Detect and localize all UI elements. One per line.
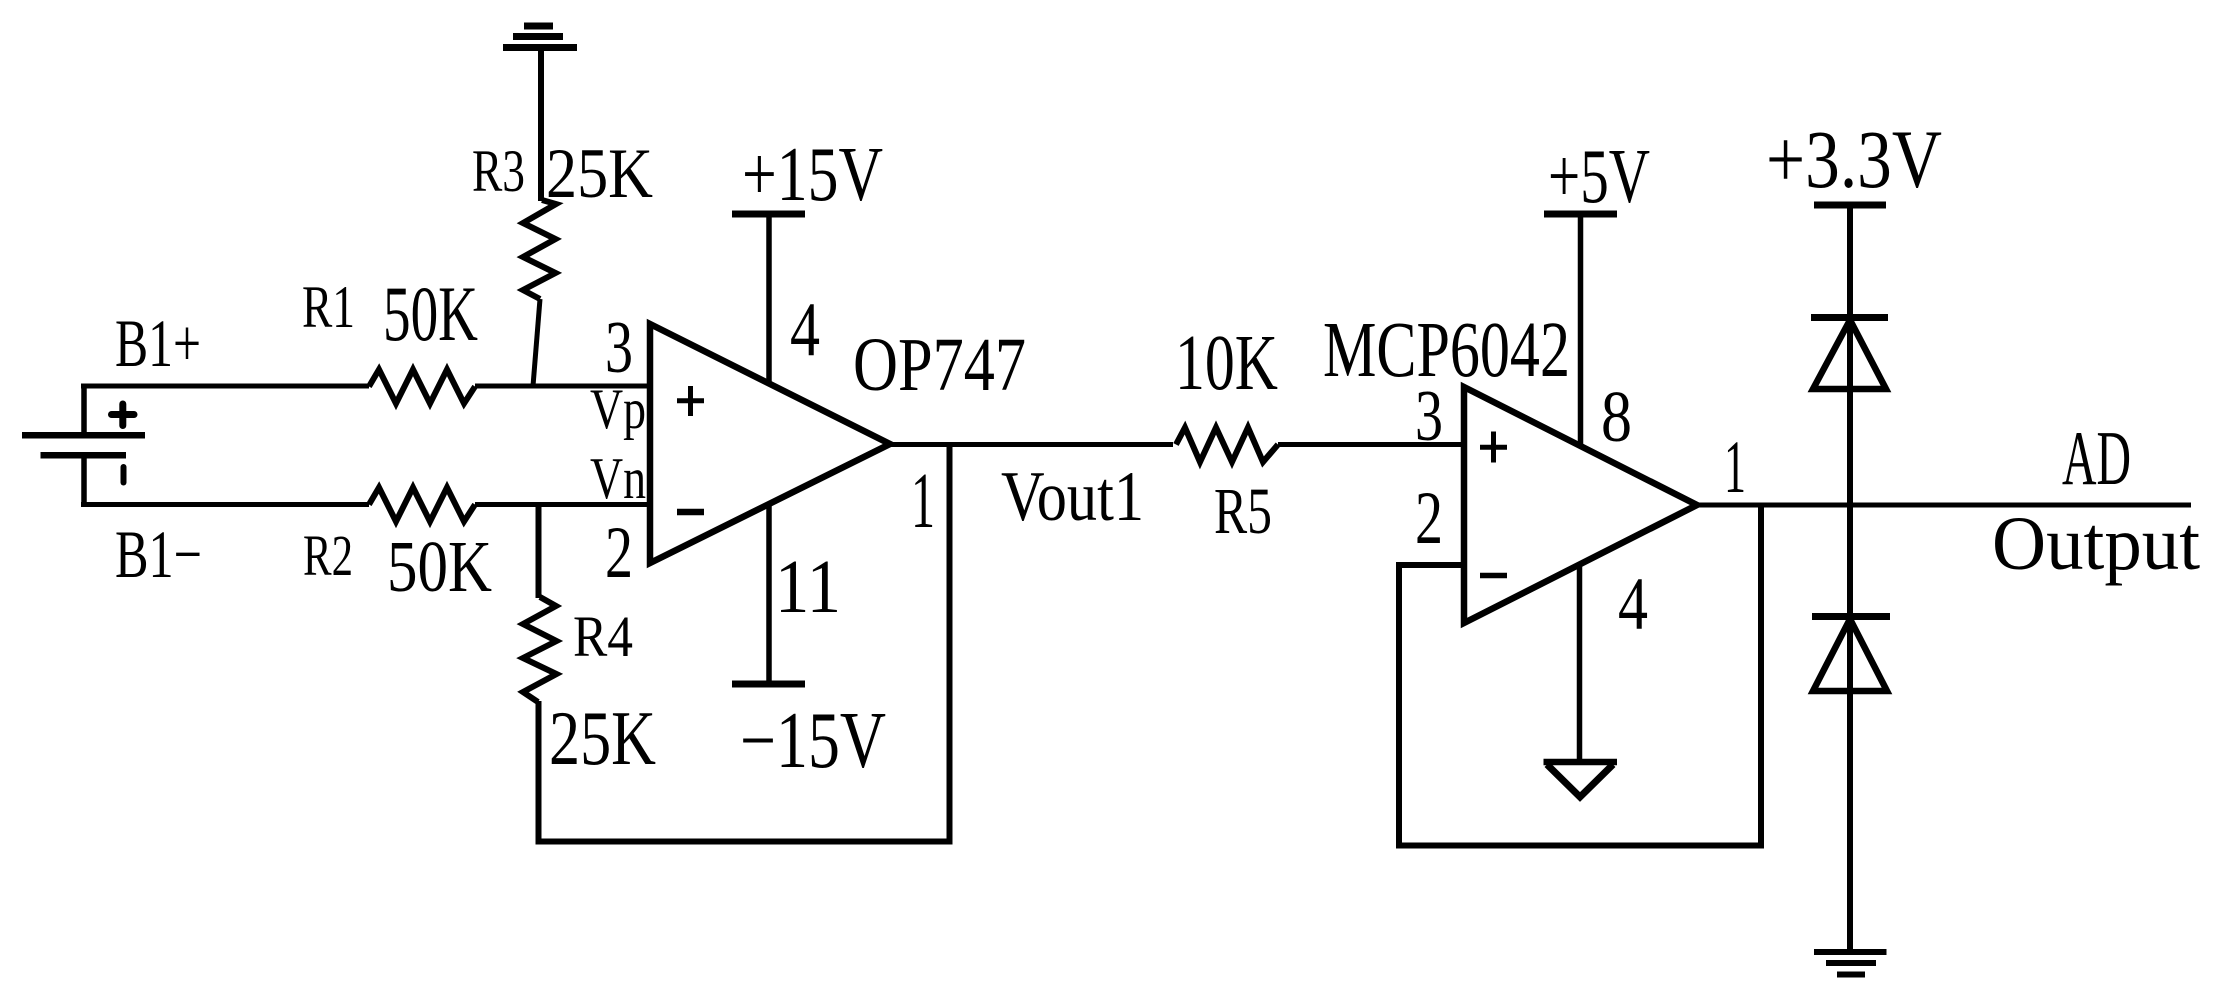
svg-text:+15V: +15V [742,131,883,217]
resistor R3 [523,200,556,299]
wire (op1 output to R5) [888,442,1173,447]
wire (R2 to op-amp pin 2) [475,502,650,507]
svg-text:R4: R4 [573,604,633,669]
resistor R5 [1176,428,1278,463]
battery B1 plus mark [112,404,135,426]
power +15V bar [732,211,805,218]
svg-text:Vn: Vn [590,445,646,511]
wire (op2 output to AD Output) [1695,503,2191,508]
svg-text:Vout1: Vout1 [1001,458,1144,536]
svg-text:R2: R2 [303,523,353,588]
svg-text:8: 8 [1601,376,1632,457]
power +3.3V bar [1814,202,1886,209]
wire (B1 bottom lead) [81,457,87,505]
resistor R4 [523,597,557,702]
battery B1 [22,386,145,505]
svg-text:B1−: B1− [115,516,202,592]
svg-text:3: 3 [605,307,633,389]
svg-text:2: 2 [1415,477,1443,560]
svg-text:50K: 50K [383,270,478,357]
svg-text:25K: 25K [546,135,653,213]
op-amp U1 minus input mark [677,509,704,516]
wire (R1 to op-amp pin 3) [475,384,650,389]
op-amp U2 minus input mark [1480,573,1507,579]
wire (R4 to feedback bottom) [536,701,542,842]
wire (+15V supply lead, pin 4) [766,214,772,383]
wire (R4 branch from pin2 node) [536,505,542,599]
svg-text:1: 1 [911,458,935,545]
power -15V bar [732,681,805,688]
wire (B1- to R2) [81,502,369,507]
op-amp U1 plus input mark [677,386,704,416]
wire (-15V supply lead, pin 11) [766,504,772,684]
resistor R1 [369,370,475,404]
ground (top, above R3) [503,26,577,48]
wire (ground to R3) [538,50,544,201]
svg-text:10K: 10K [1175,320,1278,407]
svg-text:AD: AD [2062,415,2131,501]
svg-text:4: 4 [1618,563,1648,646]
svg-text:−15V: −15V [740,697,886,785]
wire (feedback U1: output down then left to R4) [536,445,950,842]
battery B1 positive plate [22,432,145,439]
svg-text:2: 2 [605,512,633,594]
battery B1 minus mark [121,464,127,486]
op-amp U2 MCP6042 triangle [1464,387,1697,623]
resistor R2 [369,488,475,522]
diode D2 [1813,619,1887,691]
battery B1 negative plate [41,452,127,459]
wire (B1 top lead) [81,386,87,432]
wire (B1+ to R1) [81,384,369,389]
wire (R5 to op-amp U2 pin 3) [1278,442,1464,447]
svg-text:+5V: +5V [1548,133,1650,219]
wire (diode clamp vertical rail) [1847,205,1853,951]
svg-text:25K: 25K [549,695,656,781]
svg-text:R1: R1 [302,274,355,340]
power +5V bar [1544,211,1617,218]
svg-text:50K: 50K [387,526,492,607]
svg-text:11: 11 [775,545,841,629]
svg-text:+3.3V: +3.3V [1766,113,1942,205]
op-amp U2 plus input mark [1480,432,1507,463]
svg-text:MCP6042: MCP6042 [1323,307,1570,394]
wire (+5V supply lead, pin 8) [1578,214,1584,444]
svg-text:4: 4 [790,286,820,372]
wire (pin 4 to ground arrow) [1577,565,1583,761]
svg-text:R3: R3 [472,138,525,204]
svg-text:B1+: B1+ [115,305,201,381]
svg-text:3: 3 [1415,375,1443,456]
wire (R3 slant to node Vp) [533,299,540,386]
ground (bottom right) [1814,952,1887,975]
svg-text:Output: Output [1992,502,2200,586]
svg-text:OP747: OP747 [853,323,1026,407]
svg-text:R5: R5 [1214,475,1272,548]
diode D1 cathode bar [1811,314,1888,321]
diode D2 cathode bar [1812,613,1890,620]
diode D1 [1813,320,1886,389]
op-amp U1 OP747 triangle [650,324,890,563]
svg-text:1: 1 [1724,426,1746,509]
ground (U2 pin 4, arrow style) [1544,759,1618,766]
wire (feedback U2: pin2 left, down, right, up to output) [1399,505,1761,846]
